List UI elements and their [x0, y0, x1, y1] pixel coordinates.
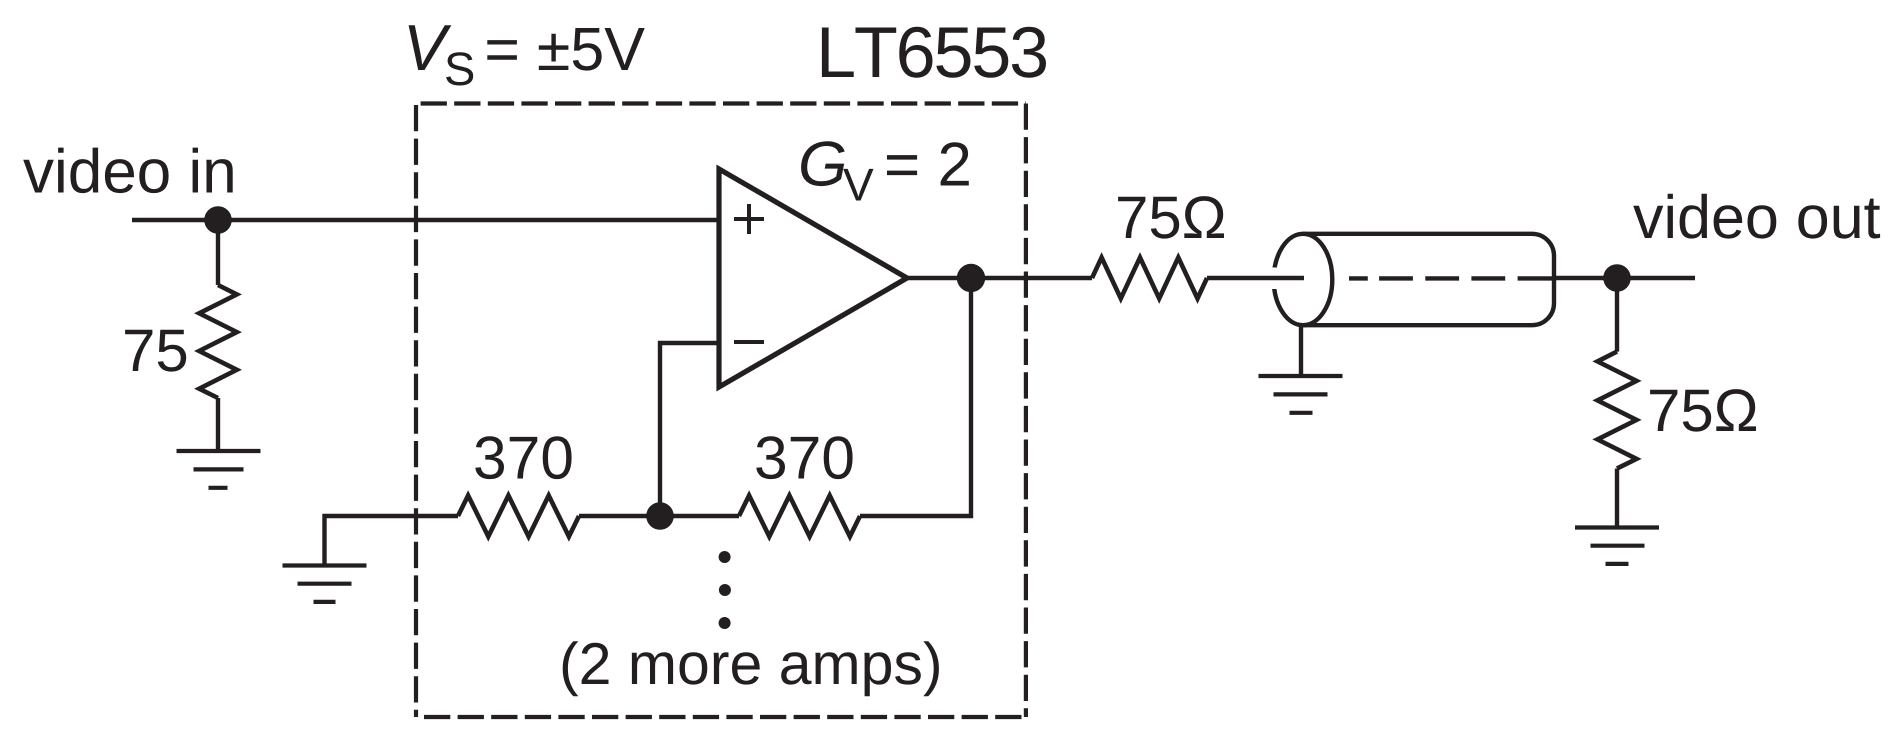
wire video in to op-amp + input — [132, 218, 719, 222]
wire feedback right vertical up to output — [860, 278, 971, 516]
value label 75 input termination — [125, 330, 186, 372]
value label 75 ohm series — [1118, 196, 1224, 239]
wire output resistor to ground — [1615, 469, 1619, 528]
text label (2 more amps) — [563, 641, 939, 696]
resistor 370 gain set — [458, 496, 579, 537]
node input junction — [204, 206, 232, 234]
wire coax shield to ground — [1299, 325, 1303, 376]
node feedback junction — [646, 502, 674, 530]
resistor 370 feedback — [739, 496, 860, 537]
value label VS supply - subscript S — [446, 52, 473, 85]
wire feedback node to 370 feedback resistor — [660, 514, 739, 518]
value label VS supply - = plusminus 5V — [487, 28, 644, 71]
value label VS supply - italic V — [409, 25, 452, 70]
node video out junction — [1603, 264, 1631, 292]
ground input termination — [177, 451, 261, 488]
op-amp - pin symbol — [734, 340, 764, 344]
wire resistor to ground — [216, 398, 220, 451]
resistor 75ohm series — [1092, 258, 1207, 299]
text label video out — [1633, 194, 1880, 239]
dashed box LT6553 package outline bottom edge — [424, 715, 1026, 719]
wire coax to video out — [1554, 276, 1695, 280]
value label gain - = 2 — [887, 142, 969, 185]
ground output termination — [1575, 528, 1659, 564]
value label gain - subscript V — [843, 169, 873, 201]
op-amp U1 triangle — [719, 169, 907, 387]
wire series resistor into coax ellipse — [1207, 276, 1304, 280]
ground coax shield — [1259, 376, 1343, 413]
value label gain - italic G — [801, 141, 845, 186]
value label 370 gain set — [475, 436, 571, 479]
wire gain-set ground stub up and right — [325, 516, 459, 564]
wire video out node down to output resistor — [1615, 278, 1619, 352]
wire feedback from - input left and down — [660, 343, 719, 516]
node output junction — [957, 264, 985, 292]
resistor 75ohm output termination — [1598, 352, 1637, 469]
resistor 75 input termination — [199, 285, 237, 398]
dashed box LT6553 package outline top edge — [416, 101, 1026, 105]
dashed box LT6553 package outline right edge — [1024, 104, 1028, 718]
ellipsis dots 2 more amps — [719, 551, 731, 629]
coax cable body cylinder — [1303, 234, 1554, 325]
dashed box LT6553 package outline left edge — [414, 104, 418, 718]
text label video in — [23, 148, 233, 194]
coax cable dashed center conductor — [1349, 276, 1552, 280]
wire 370 to feedback node — [579, 514, 660, 518]
op-amp + pin symbol — [734, 204, 764, 234]
value label 370 feedback — [756, 436, 852, 479]
coax cable left ellipse — [1274, 234, 1333, 325]
wire input node down to resistor — [216, 220, 220, 285]
text label LT6553 part number — [822, 27, 1046, 78]
wire op-amp output to series resistor — [907, 276, 1092, 280]
value label 75 ohm output termination — [1650, 389, 1756, 432]
ground gain-set resistor — [283, 566, 367, 602]
